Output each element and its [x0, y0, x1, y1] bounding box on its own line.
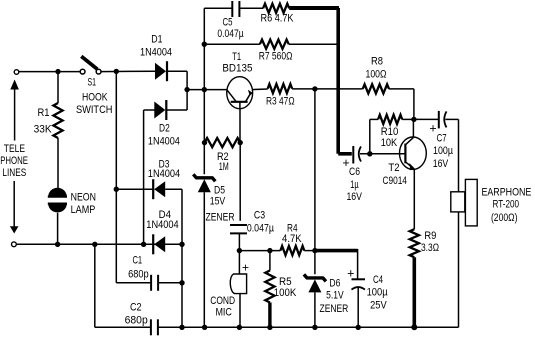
wire R7 left lead — [204, 43, 260, 45]
wire R3 to R8 — [292, 88, 363, 90]
node R9 ground — [411, 324, 417, 330]
neon lamp bottom electrode — [48, 204, 67, 213]
wire R10 right lead — [402, 118, 414, 120]
wire R8 to corner down — [389, 88, 414, 90]
svg-text:0.047µ: 0.047µ — [217, 28, 244, 40]
svg-text:(200Ω): (200Ω) — [491, 212, 518, 224]
wire R5 bottom lead thick — [268, 303, 271, 328]
wire earphone bottom lead — [458, 212, 460, 327]
wire switch to D1 node — [101, 70, 155, 72]
svg-text:100Ω: 100Ω — [366, 69, 387, 81]
capacitor C1 680p — [150, 275, 152, 291]
svg-text:25V: 25V — [370, 300, 387, 312]
node mic ground — [237, 325, 242, 330]
resistor R7 560 — [260, 40, 289, 49]
svg-text:+: + — [242, 261, 249, 275]
wire D3 anode to down corner — [165, 188, 182, 190]
node R7 branch — [202, 42, 207, 47]
diode D4 1N4004 — [154, 236, 165, 252]
wire T2 collector lead — [412, 119, 414, 137]
diode D3 1N4004 — [154, 181, 165, 197]
wire C1 right lead — [158, 282, 182, 284]
zener diode D6 5.1V — [304, 274, 326, 281]
terminal ring (bottom telephone line) — [12, 242, 17, 247]
wire R2-right down to C3 — [239, 143, 241, 221]
wire T1 collector lead — [252, 88, 267, 91]
svg-text:C3: C3 — [254, 210, 265, 222]
resistor R2 1M — [205, 138, 241, 147]
node R5 ground — [267, 325, 272, 330]
svg-text:10K: 10K — [381, 137, 398, 149]
node C4 ground — [356, 325, 361, 330]
svg-text:EARPHONE: EARPHONE — [481, 187, 531, 199]
resistor R8 100 — [363, 84, 389, 93]
svg-text:1N4004: 1N4004 — [148, 168, 180, 180]
node C6-R10 junction — [367, 151, 372, 156]
wire R7 right lead — [289, 43, 337, 45]
wire R4 to D6 node — [304, 250, 315, 252]
wire D1 cathode corner — [167, 70, 187, 72]
terminal tip (top telephone line) — [14, 70, 19, 75]
svg-text:C2: C2 — [130, 301, 142, 313]
switch S1 right contact — [96, 69, 101, 74]
node D4 cathode-side junction — [179, 242, 184, 247]
neon lamp top electrode — [48, 188, 67, 197]
svg-text:C7: C7 — [437, 133, 447, 145]
svg-text:100K: 100K — [274, 287, 297, 299]
wire bottom tip rail — [16, 243, 182, 245]
capacitor C2 680p — [150, 319, 152, 335]
svg-text:1M: 1M — [219, 161, 229, 173]
wire top rail from tip to switch — [19, 71, 81, 73]
resistor R5 100K — [265, 271, 274, 303]
wire ground rail — [95, 326, 151, 328]
svg-text:T1: T1 — [232, 51, 241, 63]
wire D6 rail upper — [314, 89, 316, 274]
resistor R1 — [53, 103, 62, 138]
svg-text:C5: C5 — [223, 17, 233, 29]
svg-text:15V: 15V — [210, 195, 226, 207]
wire C3node to R4 — [239, 250, 280, 252]
svg-text:RT-200: RT-200 — [493, 198, 520, 210]
svg-text:D6: D6 — [329, 278, 340, 290]
svg-text:4.7K: 4.7K — [282, 233, 302, 245]
capacitor C6 1u — [352, 146, 354, 164]
wire rail x116 down to C1 row corner — [115, 189, 117, 283]
wire D3 cathode lead — [116, 188, 153, 190]
svg-text:16V: 16V — [433, 158, 449, 170]
wire C4 bottom lead — [357, 287, 359, 327]
capacitor C5 0.047u — [231, 1, 233, 17]
svg-text:+: + — [429, 122, 436, 136]
svg-text:T2: T2 — [388, 162, 399, 174]
node R2 right — [238, 140, 243, 145]
svg-text:C4: C4 — [373, 274, 383, 286]
transistor T2 C9014 — [400, 137, 427, 169]
resistor R10 10K — [378, 115, 402, 124]
svg-text:NEON: NEON — [71, 192, 96, 204]
wire rail x204 lower — [203, 192, 205, 327]
svg-text:D1: D1 — [151, 33, 162, 45]
svg-text:1N4004: 1N4004 — [140, 46, 172, 58]
wire mic top lead — [238, 251, 240, 274]
svg-text:BD135: BD135 — [222, 63, 252, 75]
wire rail x182 down to C2 row — [181, 244, 183, 327]
svg-text:PHONE: PHONE — [0, 155, 28, 167]
wire T2 emitter lead — [413, 169, 415, 230]
resistor R9 3.3 — [410, 229, 419, 257]
svg-text:C6: C6 — [349, 166, 360, 178]
svg-text:ZENER: ZENER — [206, 212, 235, 224]
node D4 anode-side junction — [141, 242, 146, 247]
svg-text:C1: C1 — [132, 255, 142, 267]
svg-text:R1: R1 — [38, 107, 50, 119]
svg-text:TELE: TELE — [4, 143, 25, 155]
wire R1 top lead — [57, 72, 59, 103]
node T1 base branch — [202, 87, 207, 92]
wire R10 left corner — [369, 119, 371, 153]
node D6 top junction — [312, 248, 317, 253]
svg-text:5.1V: 5.1V — [326, 289, 344, 301]
svg-text:0.047µ: 0.047µ — [247, 223, 275, 235]
capacitor C7 100u — [438, 111, 440, 128]
wire C3 bottom lead — [238, 233, 240, 250]
wire top row left — [204, 7, 232, 9]
node neon bottom — [55, 242, 60, 247]
node R5 top junction — [267, 248, 272, 253]
resistor R3 47 — [268, 84, 292, 93]
svg-text:100µ: 100µ — [367, 287, 389, 299]
svg-text:33K: 33K — [34, 124, 53, 136]
wire T1 base wire — [187, 89, 227, 91]
node R10-C7 junction — [411, 117, 416, 122]
svg-text:680p: 680p — [128, 268, 149, 280]
node rail-x182 ground — [179, 325, 184, 330]
diode D2 1N4004 — [154, 102, 165, 119]
wire thick R6 to corner — [289, 6, 339, 10]
wire thick to C6 — [338, 152, 352, 156]
wire C4 top lead — [357, 249, 359, 279]
svg-text:C9014: C9014 — [382, 175, 407, 187]
svg-text:HOOK: HOOK — [82, 91, 108, 103]
node D6 ground — [312, 325, 317, 330]
zener diode D5 15V — [193, 174, 215, 181]
svg-text:1N4004: 1N4004 — [146, 219, 178, 231]
capacitor C4 plates — [352, 278, 366, 280]
diode D1 1N4004 — [155, 63, 166, 80]
svg-text:SWITCH: SWITCH — [76, 104, 113, 116]
svg-text:680p: 680p — [125, 315, 148, 327]
switch S1 left contact — [80, 69, 85, 74]
earphone transducer body — [451, 192, 465, 212]
node C3-mic-R4 junction — [237, 248, 242, 253]
wire C5 to R6 — [239, 7, 263, 9]
wire D6 rail lower — [314, 292, 316, 327]
svg-text:1µ: 1µ — [350, 179, 359, 191]
wire C7 right corner to earphone — [445, 118, 458, 120]
svg-text:S1: S1 — [88, 77, 97, 89]
svg-text:1N4004: 1N4004 — [148, 135, 180, 147]
svg-text:LAMP: LAMP — [71, 204, 96, 216]
svg-text:R6 4.7K: R6 4.7K — [261, 13, 295, 25]
wire R5 top lead — [269, 251, 271, 271]
wire rail x143 (D2 anode to tip rail) — [143, 110, 145, 244]
svg-text:R8: R8 — [371, 56, 383, 68]
transistor T1 BD135 — [227, 77, 253, 109]
svg-text:R7 560Ω: R7 560Ω — [259, 51, 293, 63]
resistor R6 4.7K — [263, 4, 289, 13]
wire thick vertical rail x338 — [336, 8, 340, 154]
svg-text:16V: 16V — [346, 191, 362, 203]
wire rail x204 upper — [203, 8, 205, 174]
svg-text:COND: COND — [210, 295, 235, 307]
wire C7 left lead — [414, 118, 439, 120]
wire neon lamp to bottom rail — [57, 213, 59, 245]
wire mic bottom lead — [239, 294, 241, 328]
wire R1 to neon lamp — [57, 138, 59, 189]
node D1 anode junction — [114, 69, 119, 74]
svg-text:R9: R9 — [424, 230, 436, 242]
wire D2 anode lead — [144, 109, 155, 111]
resistor R4 4.7K — [280, 246, 304, 255]
svg-text:R3 47Ω: R3 47Ω — [266, 95, 295, 107]
wire rail x116 (D1 node to D3 node) — [115, 71, 117, 189]
svg-text:100µ: 100µ — [433, 145, 454, 157]
wire thick R4row to C4 corner — [315, 249, 358, 253]
capacitor C3 0.047u — [230, 224, 247, 226]
telephone-lines up arrow — [10, 80, 19, 90]
svg-text:D2: D2 — [159, 122, 170, 134]
svg-text:MIC: MIC — [215, 307, 232, 319]
node ground-branch on tip rail — [92, 242, 97, 247]
wire C6 to T2 base — [360, 153, 405, 155]
earphone horn plate — [465, 179, 477, 226]
svg-text:3.3Ω: 3.3Ω — [421, 242, 439, 254]
wire R9 bottom lead thick — [412, 257, 416, 327]
node base-row junction at x187 — [184, 87, 189, 92]
condenser microphone — [230, 274, 246, 294]
svg-text:LINES: LINES — [2, 167, 26, 179]
wire ground branch down — [94, 244, 96, 327]
node R1 top junction — [55, 69, 60, 74]
telephone-lines down arrow — [13, 181, 15, 227]
node C1-rail junction — [179, 280, 184, 285]
node D3 wire junction — [114, 187, 119, 192]
switch S1 lever — [81, 56, 97, 69]
node D6-rail top junction — [312, 86, 317, 91]
svg-text:ZENER: ZENER — [320, 303, 349, 315]
wire D2 cathode lead — [166, 109, 187, 111]
node rail-x204 ground — [202, 325, 207, 330]
node R2 left — [202, 140, 207, 145]
wire T1 emitter lead — [239, 109, 241, 143]
